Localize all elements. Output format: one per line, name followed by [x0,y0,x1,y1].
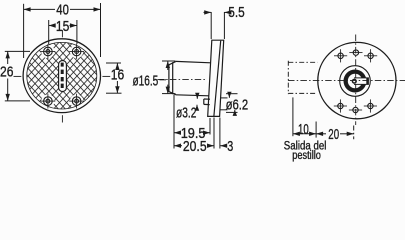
svg-text:5.5: 5.5 [228,4,244,21]
svg-text:ø16.5: ø16.5 [133,72,159,89]
svg-text:15: 15 [56,18,69,35]
svg-text:3: 3 [227,138,233,155]
svg-text:pestillo: pestillo [292,150,321,162]
svg-text:20.5: 20.5 [183,138,207,155]
svg-text:20: 20 [328,126,339,143]
svg-text:16: 16 [111,66,124,83]
svg-text:26: 26 [0,64,13,81]
svg-text:ø3.2: ø3.2 [176,105,196,122]
svg-text:ø6.2: ø6.2 [226,97,249,114]
svg-text:10: 10 [298,121,309,138]
svg-text:40: 40 [56,2,69,19]
